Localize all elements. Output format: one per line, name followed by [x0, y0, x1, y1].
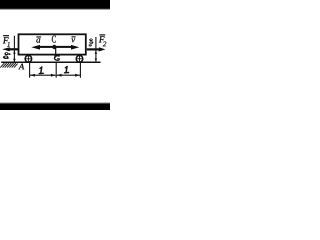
F1 label — [3, 35, 10, 47]
F2 force arrow (right, pointing right) — [87, 47, 106, 51]
a-bar acceleration arrow (points left) — [31, 45, 56, 50]
l label (left) — [39, 67, 43, 74]
left h dimension line — [13, 36, 16, 62]
C label — [52, 36, 56, 43]
left wheel — [25, 55, 32, 62]
right h label glyphs (blobs) — [89, 38, 94, 46]
F1 force arrow (left, pointing left) — [2, 47, 18, 51]
dimension line l (right) — [57, 74, 80, 77]
extension line below centre C — [55, 63, 57, 78]
G weight arrow down from C — [52, 45, 57, 58]
right wheel — [76, 55, 83, 62]
background — [0, 0, 110, 110]
extension line below left wheel — [29, 63, 31, 78]
dimension line l (left) — [30, 74, 56, 77]
a-bar label — [36, 36, 41, 42]
extension line below right wheel — [79, 63, 81, 78]
left h label glyphs (blobs) — [3, 52, 11, 59]
ground hatching — [0, 63, 17, 68]
v-bar label — [71, 36, 75, 42]
ground line — [1, 61, 100, 63]
right h dimension line — [95, 37, 98, 61]
bottom black scan band — [0, 103, 110, 110]
v-bar velocity arrow (points right) — [55, 45, 79, 50]
top black scan band — [0, 0, 110, 9]
F2 label — [99, 34, 106, 46]
G label (blobby scan glyph) — [54, 56, 59, 61]
l label (right) — [65, 66, 69, 72]
cart body rectangle — [19, 34, 86, 54]
label A — [18, 64, 24, 70]
